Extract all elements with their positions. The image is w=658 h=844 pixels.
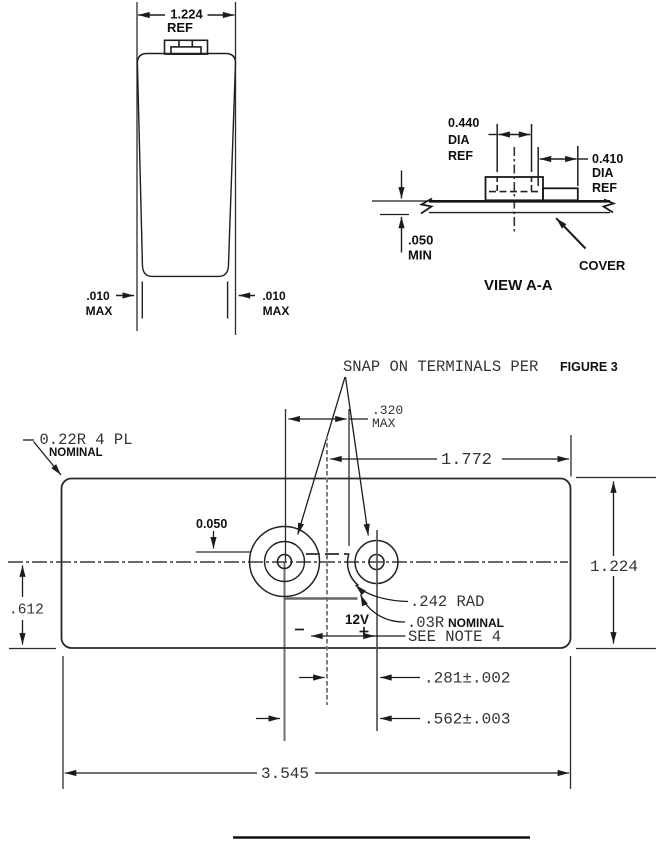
svg-text:REF: REF [448,149,473,163]
leader 0.22R to corner [23,440,61,475]
extension line 0.440 right [531,124,533,172]
cover top surface [429,200,610,203]
horizontal centerline [8,561,568,563]
extension line right for 3.545 [570,656,572,789]
label .050 MIN [408,233,433,263]
battery bottom side line right (.010 gap) [227,282,229,319]
extension line bottom-left for .612 [9,648,56,650]
label 0.410 DIA REF [592,152,623,195]
extension line bottom for 1.224 right [576,648,656,650]
svg-text:MIN: MIN [408,248,432,263]
extension line through negative terminal (lower gray) [284,562,286,741]
svg-text:MAX: MAX [372,416,396,431]
svg-text:.242 RAD: .242 RAD [410,593,484,611]
extension line right of side view (1.224 REF) [235,2,237,335]
svg-text:0.050: 0.050 [196,517,227,531]
svg-text:SNAP ON TERMINALS PER: SNAP ON TERMINALS PER [343,358,538,376]
leader .03R [361,595,406,623]
label .010 MAX right with arrow [239,289,290,318]
svg-text:COVER: COVER [579,258,626,273]
negative terminal inner circle [278,555,292,569]
label .03R NOMINAL [407,614,504,632]
dimension 0.410 [540,158,588,160]
dimension .562 [256,711,510,729]
svg-text:.562±.003: .562±.003 [424,711,510,729]
svg-text:DIA: DIA [448,133,470,147]
dimension 1.224 right [590,481,638,643]
arrow up to cover bottom [401,217,403,253]
positive terminal outer circle [355,541,398,584]
arrow 0.050 down [213,531,215,549]
svg-text:0.410: 0.410 [592,152,623,166]
svg-text:VIEW A-A: VIEW A-A [484,277,553,294]
extension line 0.410 left [537,147,539,186]
leader to negative terminal [298,377,345,535]
terminal cross-section right step [543,188,578,200]
svg-text:3.545: 3.545 [261,765,309,783]
vertical centerline between terminals [326,436,328,705]
extension line top for 1.224 right [576,477,656,479]
line 0.050 terminal flat [196,551,251,553]
terminal hidden lines (dashed) [489,176,541,192]
cover break squiggle right [604,200,614,213]
dimension .281 [299,670,510,688]
dimension 3.545 [65,765,569,783]
extension line 0.410 right [577,146,579,186]
extension line through positive terminal [376,530,378,731]
leader .242 RAD [356,585,409,602]
svg-text:REF: REF [167,20,193,35]
svg-text:MAX: MAX [86,304,113,318]
svg-text:MAX: MAX [263,304,290,318]
figure border line bottom [233,836,530,838]
label 0.440 DIA REF [448,116,479,163]
negative terminal outer circle [250,527,320,597]
recess arc .242 RAD [348,553,359,585]
cover bottom surface [429,212,610,214]
svg-text:12V: 12V [345,612,369,627]
terminal center line (VIEW A-A) [513,147,515,234]
label SNAP ON TERMINALS PER FIGURE 3 [343,358,618,376]
dimension .612 [9,565,44,644]
terminal cross-section outer body [486,177,544,200]
cover break squiggle left [421,199,432,214]
extension line through negative terminal (upper black) [285,409,287,562]
extension line right edge of battery [570,435,572,477]
svg-text:FIGURE 3: FIGURE 3 [560,360,618,374]
positive terminal inner circle [369,555,384,570]
label 0.22R 4 PL NOMINAL [40,431,133,459]
leader to positive terminal [346,377,369,536]
svg-text:.050: .050 [408,233,433,248]
dimension 0.440 [489,134,531,136]
svg-text:0.440: 0.440 [448,116,479,130]
reference line lower (.050 MIN) [380,214,409,216]
extension line .320 right [348,409,350,546]
extension line left of side view (1.224 REF) [136,2,138,331]
svg-text:1.772: 1.772 [441,451,492,470]
battery terminal (side view) [165,40,208,54]
svg-text:.010: .010 [262,289,286,303]
extension line 0.440 left [496,124,498,172]
battery bottom side line left (.010 gap) [141,282,143,319]
dimension 1.224 REF [138,7,234,36]
reference line upper (.050 MIN) [372,200,427,202]
battery outline (top view) [62,479,571,649]
dimension .320 MAX [288,403,403,431]
plus polarity mark [360,627,369,636]
terminal slot upper edge (hidden) [306,553,348,555]
label .010 MAX left with arrow [86,289,134,318]
leader SEE NOTE 4 [311,635,405,637]
minus polarity mark [295,629,304,631]
terminal slot lower edge [285,597,358,599]
svg-text:.612: .612 [9,603,44,619]
svg-text:.010: .010 [86,289,110,303]
leader arrow COVER [556,218,585,248]
battery body outline (side view) [137,54,235,277]
svg-text:NOMINAL: NOMINAL [49,447,103,459]
arrow down to cover top [401,171,403,199]
svg-text:1.224: 1.224 [590,558,638,576]
svg-text:DIA: DIA [592,166,614,180]
extension line left for 3.545 [62,656,64,789]
negative terminal middle circle [265,542,305,582]
svg-text:REF: REF [592,181,617,195]
dimension 1.772 [330,451,569,470]
svg-text:SEE NOTE 4: SEE NOTE 4 [408,628,501,646]
svg-text:.281±.002: .281±.002 [424,670,510,688]
